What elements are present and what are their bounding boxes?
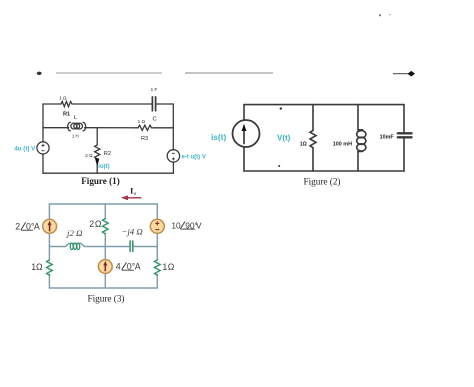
- wire: fig1 bottom wire: [43, 172, 173, 174]
- wire: fig1 left wire lower: [42, 154, 44, 173]
- wire: fig3 bottom wire: [49, 287, 157, 289]
- wire: fig1 middle wire right of R3: [152, 127, 174, 129]
- svg-text:V(t): V(t): [277, 134, 291, 143]
- wire: fig1 R2 branch lower: [96, 159, 98, 173]
- wire: fig1 right wire lower: [172, 162, 174, 173]
- svg-text:io(t): io(t): [98, 164, 109, 170]
- svg-text:4: 4: [116, 261, 121, 271]
- wire: fig1 top middle segment: [72, 103, 152, 105]
- label 2 angle 0 A: [15, 221, 40, 231]
- wire: fig3 middle horizontal right: [134, 246, 157, 248]
- top right arrow diamond head: [408, 71, 416, 77]
- current source 2A circle: [43, 219, 57, 233]
- Io red arrow head: [121, 195, 128, 200]
- svg-text:R2: R2: [104, 151, 111, 157]
- angle underline for 2A label: [21, 229, 33, 231]
- Vs2 minus sign: [172, 153, 175, 160]
- label 2 Ohm fig3: [89, 219, 102, 229]
- wire: fig1 left wire upper: [42, 104, 44, 142]
- resistor R3: [138, 125, 152, 130]
- wire: fig2 resistor branch upper: [312, 105, 314, 131]
- svg-text:Ω: Ω: [95, 219, 102, 229]
- resistor 1 Ohm fig3 right: [155, 260, 161, 275]
- resistor 1 Ohm fig2: [310, 131, 316, 148]
- wire: fig3 middle horizontal center: [85, 246, 129, 248]
- inductor j2 Ohm coil: [69, 242, 81, 244]
- Io red arrow shaft: [127, 197, 142, 199]
- wire: fig3 middle branch lower: [104, 273, 106, 288]
- svg-text:10: 10: [171, 220, 181, 230]
- inductor 100 mH coil: [358, 129, 363, 131]
- voltage source Vs1 circle: [37, 142, 49, 154]
- svg-text:1 Ω: 1 Ω: [138, 119, 146, 124]
- wire: fig3 top wire: [49, 203, 157, 205]
- angle slash for 10V label: [180, 222, 185, 229]
- svg-text:1 Ω: 1 Ω: [59, 96, 67, 101]
- angle slash for 2A label: [21, 222, 26, 230]
- current source 2A arrow: [49, 225, 51, 232]
- inductor L symbol: [68, 122, 71, 131]
- wire: fig2 bottom wire: [244, 170, 404, 172]
- resistor 1 Ohm fig3 left: [47, 260, 53, 275]
- top speck 2: [389, 14, 391, 16]
- wire: fig1 right wire upper: [172, 104, 174, 150]
- wire: fig3 left wire lower: [48, 275, 50, 289]
- wire: fig2 inductor branch upper: [357, 105, 359, 130]
- top divider dot: [37, 72, 42, 75]
- svg-text:R1: R1: [63, 111, 70, 117]
- Vs1 minus sign: [42, 150, 45, 152]
- wire: fig2 left wire lower: [243, 147, 245, 171]
- capacitor C plates: [151, 97, 153, 111]
- voltage source Vs2 circle: [167, 150, 179, 162]
- wire: fig2 top wire: [244, 104, 404, 106]
- svg-text:4u (t) V: 4u (t) V: [14, 145, 36, 152]
- svg-text:e-t u(t) V: e-t u(t) V: [182, 154, 206, 160]
- resistor R1: [61, 101, 72, 106]
- svg-text:10mF: 10mF: [380, 134, 395, 140]
- svg-text:A: A: [135, 261, 141, 271]
- wire: fig1 top right segment: [156, 103, 173, 105]
- svg-text:2: 2: [15, 221, 20, 231]
- svg-text:2 Ω: 2 Ω: [85, 153, 93, 158]
- wire: fig2 left wire upper: [243, 105, 245, 120]
- top divider line 1: [56, 72, 162, 74]
- svg-text:1Ω: 1Ω: [300, 141, 307, 147]
- resistor 2 Ohm fig3: [103, 219, 109, 234]
- svg-text:C: C: [153, 117, 157, 123]
- capacitor -j4 Ohm plates: [129, 241, 131, 251]
- V(t) plus dot: [280, 107, 282, 109]
- svg-text:−j4 Ω: −j4 Ω: [121, 227, 143, 237]
- svg-text:R3: R3: [141, 136, 148, 142]
- svg-text:o: o: [134, 191, 137, 197]
- wire: fig1 top left segment: [43, 103, 61, 105]
- wire: fig3 left wire middle: [48, 234, 50, 260]
- svg-text:100 mH: 100 mH: [333, 141, 352, 147]
- angle underline for 4A label: [122, 269, 134, 271]
- voltage source 10V minus: [155, 229, 159, 231]
- voltage source 10V circle: [150, 219, 164, 233]
- svg-text:Ω: Ω: [168, 262, 175, 272]
- svg-text:A: A: [34, 221, 40, 231]
- io(t) current arrow head: [95, 159, 99, 167]
- V(t) minus dot: [278, 165, 280, 167]
- wire: fig2 resistor branch lower: [312, 148, 314, 171]
- current source 4A arrow: [104, 265, 106, 272]
- Vs1 plus sign: [42, 144, 45, 151]
- current source is(t) arrow shaft: [243, 129, 245, 144]
- wire: fig3 right wire upper: [156, 204, 158, 219]
- wire: fig3 middle horizontal left: [49, 246, 65, 248]
- top divider line 2: [185, 72, 273, 74]
- svg-text:1 H: 1 H: [72, 134, 79, 139]
- top right arrow line: [393, 73, 409, 75]
- wire: fig2 inductor branch lower: [357, 151, 359, 171]
- angle slash for 4A label: [122, 262, 127, 270]
- svg-text:Figure (3): Figure (3): [88, 294, 125, 304]
- wire: fig2 right wire lower: [403, 138, 405, 171]
- Vs2 plus sign: [172, 158, 175, 160]
- wire: fig3 right wire lower: [156, 275, 158, 289]
- wire: fig1 R2 branch upper: [96, 128, 98, 145]
- wire: fig2 right wire upper: [403, 105, 405, 133]
- wire: fig1 middle wire left of L: [43, 127, 69, 129]
- label 10 angle 90 V: [171, 220, 202, 230]
- label 4 angle 0 A: [116, 261, 141, 271]
- label 1 Ohm fig3 right: [162, 262, 174, 272]
- wire: fig3 right wire middle: [156, 234, 158, 260]
- capacitor 10mF plates: [398, 132, 412, 134]
- voltage source 10V plus: [155, 221, 159, 229]
- svg-text:is(t): is(t): [211, 132, 226, 142]
- svg-text:Figure (1): Figure (1): [81, 176, 119, 186]
- wire: fig3 left wire upper: [48, 204, 50, 219]
- svg-text:V: V: [196, 220, 202, 230]
- resistor R2: [95, 145, 100, 159]
- svg-text:1: 1: [162, 262, 167, 272]
- current source 4A circle: [98, 260, 112, 274]
- wire: fig3 middle branch upper: [104, 204, 106, 219]
- label 1 Ohm fig3 left: [31, 262, 43, 272]
- angle underline for 10V label: [180, 228, 195, 230]
- current source is(t) circle: [233, 120, 260, 147]
- svg-text:2: 2: [89, 219, 94, 229]
- current source is(t) arrow head: [242, 124, 247, 131]
- wire: fig3 middle branch center: [104, 234, 106, 260]
- svg-text:Figure (2): Figure (2): [304, 176, 341, 186]
- svg-text:j2 Ω: j2 Ω: [66, 228, 83, 238]
- top speck 1: [379, 14, 381, 16]
- inductor j2 Ohm lead left: [66, 243, 70, 246]
- svg-text:Ω: Ω: [36, 262, 43, 272]
- svg-text:1 F: 1 F: [151, 87, 158, 92]
- wire: fig1 middle wire between L and R3: [85, 127, 138, 129]
- inductor j2 Ohm lead right: [81, 243, 85, 246]
